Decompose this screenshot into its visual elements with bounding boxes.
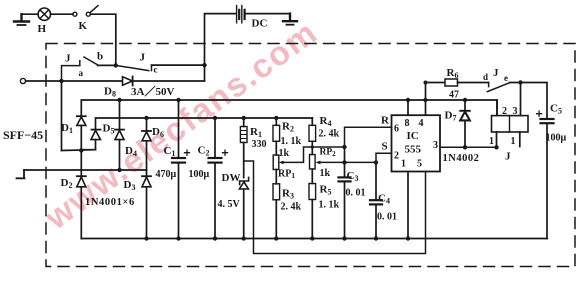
battery DC <box>237 6 245 23</box>
node S line C4 <box>374 160 378 164</box>
potentiometer RP1 <box>273 155 279 184</box>
diode D3 <box>142 170 151 239</box>
node sub-rail C2 <box>213 116 217 120</box>
node rail R3 <box>274 236 278 240</box>
node rail D7 <box>463 98 467 102</box>
svg-text:2: 2 <box>502 106 507 117</box>
svg-text:R: R <box>381 115 390 127</box>
capacitor C2 <box>209 118 228 239</box>
node D4 bottom <box>117 168 121 172</box>
svg-text:1. 1k: 1. 1k <box>281 136 302 147</box>
ground (right of battery) <box>283 14 297 25</box>
relay coil top stub pin 2 <box>496 100 498 116</box>
svg-text:3: 3 <box>433 140 438 151</box>
node wiper C3 column <box>342 145 346 149</box>
svg-text:J: J <box>140 52 146 64</box>
node wiper R4/RP2 <box>311 145 314 148</box>
relay contact J a-b: pole wire and tick <box>62 61 80 81</box>
relay coil bottom stub right <box>519 132 521 147</box>
node rail C4 <box>374 236 378 240</box>
wire battery node down to main line <box>204 65 206 81</box>
svg-text:SFF−45: SFF−45 <box>3 128 43 142</box>
battery DC wire left segment and drop <box>205 14 236 66</box>
capacitor C4 <box>370 162 382 238</box>
resistor R4 <box>309 118 316 155</box>
IC pin 8 stub <box>407 100 409 115</box>
resistor R1 <box>240 118 247 178</box>
relay contact J a-b lever <box>84 57 98 65</box>
svg-text:5: 5 <box>417 159 422 170</box>
node S line C3 <box>342 160 346 164</box>
node rail D4 <box>117 98 121 102</box>
node relay pin3 drop <box>518 80 522 84</box>
svg-text:470μ: 470μ <box>156 169 177 180</box>
capacitor C1 <box>172 100 190 239</box>
terminal 2 chassis stub <box>17 170 25 178</box>
wire R1/DW node to below-rail loop <box>244 161 426 254</box>
relay contact d tick <box>488 83 490 87</box>
svg-text:J: J <box>505 151 511 163</box>
svg-text:2: 2 <box>394 151 399 162</box>
svg-text:330: 330 <box>252 139 267 150</box>
svg-text:6: 6 <box>394 124 399 135</box>
svg-text:0. 01: 0. 01 <box>377 212 397 223</box>
bottom rail <box>81 238 547 240</box>
node rail pin1 <box>406 236 410 240</box>
svg-text:1: 1 <box>489 136 494 147</box>
terminal 1 circle <box>20 78 25 83</box>
svg-text:8: 8 <box>405 118 410 129</box>
resistor R3 <box>273 184 280 239</box>
relay contact d-e lever <box>487 83 509 92</box>
svg-text:1: 1 <box>401 159 406 170</box>
node rail C3 <box>342 236 346 240</box>
svg-text:RP2: RP2 <box>320 148 337 159</box>
svg-text:3A／50V: 3A／50V <box>131 85 174 98</box>
node sub-rail R1 <box>242 116 246 120</box>
node battery / contact c <box>202 63 206 67</box>
R line to IC pin 6 <box>345 127 392 147</box>
switch K <box>73 6 98 17</box>
diode D4 <box>115 100 124 170</box>
capacitor C3 <box>339 147 351 239</box>
watermark www.elecfans.com <box>38 14 325 238</box>
resistor R5 <box>309 184 316 239</box>
svg-text:K: K <box>79 20 88 32</box>
svg-text:e: e <box>504 73 508 83</box>
svg-text:b: b <box>97 51 103 63</box>
node pin3/D7 <box>463 145 467 149</box>
svg-text:DC: DC <box>252 18 268 30</box>
wire e to C5 corner <box>510 83 547 120</box>
node main line left <box>59 79 63 83</box>
node sub-rail D6 <box>144 116 148 120</box>
wire terminal 1 to D8 <box>26 80 123 82</box>
wire D8 to battery node column <box>133 80 205 82</box>
relay coil bottom stub to pin3 line <box>496 132 498 147</box>
svg-text:c: c <box>154 65 158 75</box>
svg-text:a: a <box>79 68 84 78</box>
svg-text:1. 1k: 1. 1k <box>319 200 340 211</box>
wire contact c to battery node <box>152 64 205 66</box>
svg-text:2. 4k: 2. 4k <box>319 129 340 140</box>
resistor R2 <box>273 118 280 155</box>
IC pin 1 stub to rail <box>407 172 409 239</box>
RP1 wiper trace <box>282 147 345 162</box>
wire lever b to junction <box>98 64 116 66</box>
node rail C1 bottom <box>176 236 180 240</box>
S node line <box>318 161 376 163</box>
wire lamp to switch K <box>51 13 73 15</box>
diode D1 <box>77 116 86 150</box>
diode D7 <box>460 100 470 147</box>
wire ground to lamp <box>22 13 39 15</box>
relay coil top stub pin 3 <box>520 83 522 116</box>
node sub-rail R2 <box>274 116 278 120</box>
resistor R6 <box>445 79 489 86</box>
svg-text:H: H <box>38 23 47 35</box>
node rail pin4 <box>423 98 427 102</box>
node D1/D2/D5 <box>79 148 83 152</box>
svg-text:1N4002: 1N4002 <box>443 153 480 164</box>
svg-text:4. 5V: 4. 5V <box>218 199 241 210</box>
horizontal link to bridge node <box>62 149 96 152</box>
svg-text:47: 47 <box>449 90 459 101</box>
IC pin 4 stub from R6 line <box>425 83 427 116</box>
svg-text:J: J <box>493 67 499 79</box>
svg-text:1k: 1k <box>279 148 290 159</box>
svg-text:d: d <box>483 72 488 82</box>
wire switch K to corner, down to contact row <box>90 14 116 65</box>
zener DW <box>239 177 248 238</box>
lamp H <box>38 8 50 20</box>
svg-text:1k: 1k <box>320 168 331 179</box>
relay contact J c lever <box>116 65 149 70</box>
svg-text:J: J <box>65 53 71 65</box>
node rail R5 <box>310 236 314 240</box>
node rail DW <box>242 236 246 240</box>
svg-text:555: 555 <box>405 144 422 156</box>
relay contact J c tick <box>151 65 153 71</box>
top rail <box>81 100 497 116</box>
node rail pin8 <box>406 98 410 102</box>
ground (left of lamp H) <box>14 14 29 25</box>
svg-text:S: S <box>382 141 388 153</box>
wire S node to IC pin 2 <box>376 153 392 162</box>
diode D5 <box>81 130 100 150</box>
svg-text:1N4001×6: 1N4001×6 <box>85 197 135 208</box>
terminal 2 wire <box>24 169 147 171</box>
diode D6 <box>142 118 151 170</box>
capacitor C5 <box>537 111 554 238</box>
diode D2 <box>77 150 86 238</box>
svg-text:100μ: 100μ <box>546 133 567 144</box>
diode D8 (3A/50V) <box>123 77 133 86</box>
sub-rail <box>96 118 313 130</box>
node pin3/relay <box>494 145 498 149</box>
wire battery to right ground <box>246 13 290 15</box>
svg-text:RP1: RP1 <box>278 169 295 181</box>
svg-text:4: 4 <box>419 118 424 129</box>
R6 line from rail junction <box>426 82 446 84</box>
potentiometer RP2 <box>310 155 316 184</box>
node rail C2 bottom <box>213 236 217 240</box>
dashed enclosure box <box>46 44 575 267</box>
relay coil J box <box>492 116 529 132</box>
node rail D3 <box>144 236 148 240</box>
node junction b/K <box>114 63 118 67</box>
svg-text:3: 3 <box>513 106 518 117</box>
left vertical from main node down <box>61 81 63 151</box>
svg-text:2. 4k: 2. 4k <box>281 202 302 213</box>
op IC 555 box <box>392 115 441 171</box>
svg-text:100μ: 100μ <box>189 169 210 180</box>
svg-text:1: 1 <box>511 136 516 147</box>
svg-text:DW: DW <box>222 172 241 184</box>
IC pin 3 line to relay <box>440 146 497 148</box>
svg-text:0. 01: 0. 01 <box>346 188 366 199</box>
node rail C1 <box>176 98 180 102</box>
svg-text:IC: IC <box>407 130 419 142</box>
